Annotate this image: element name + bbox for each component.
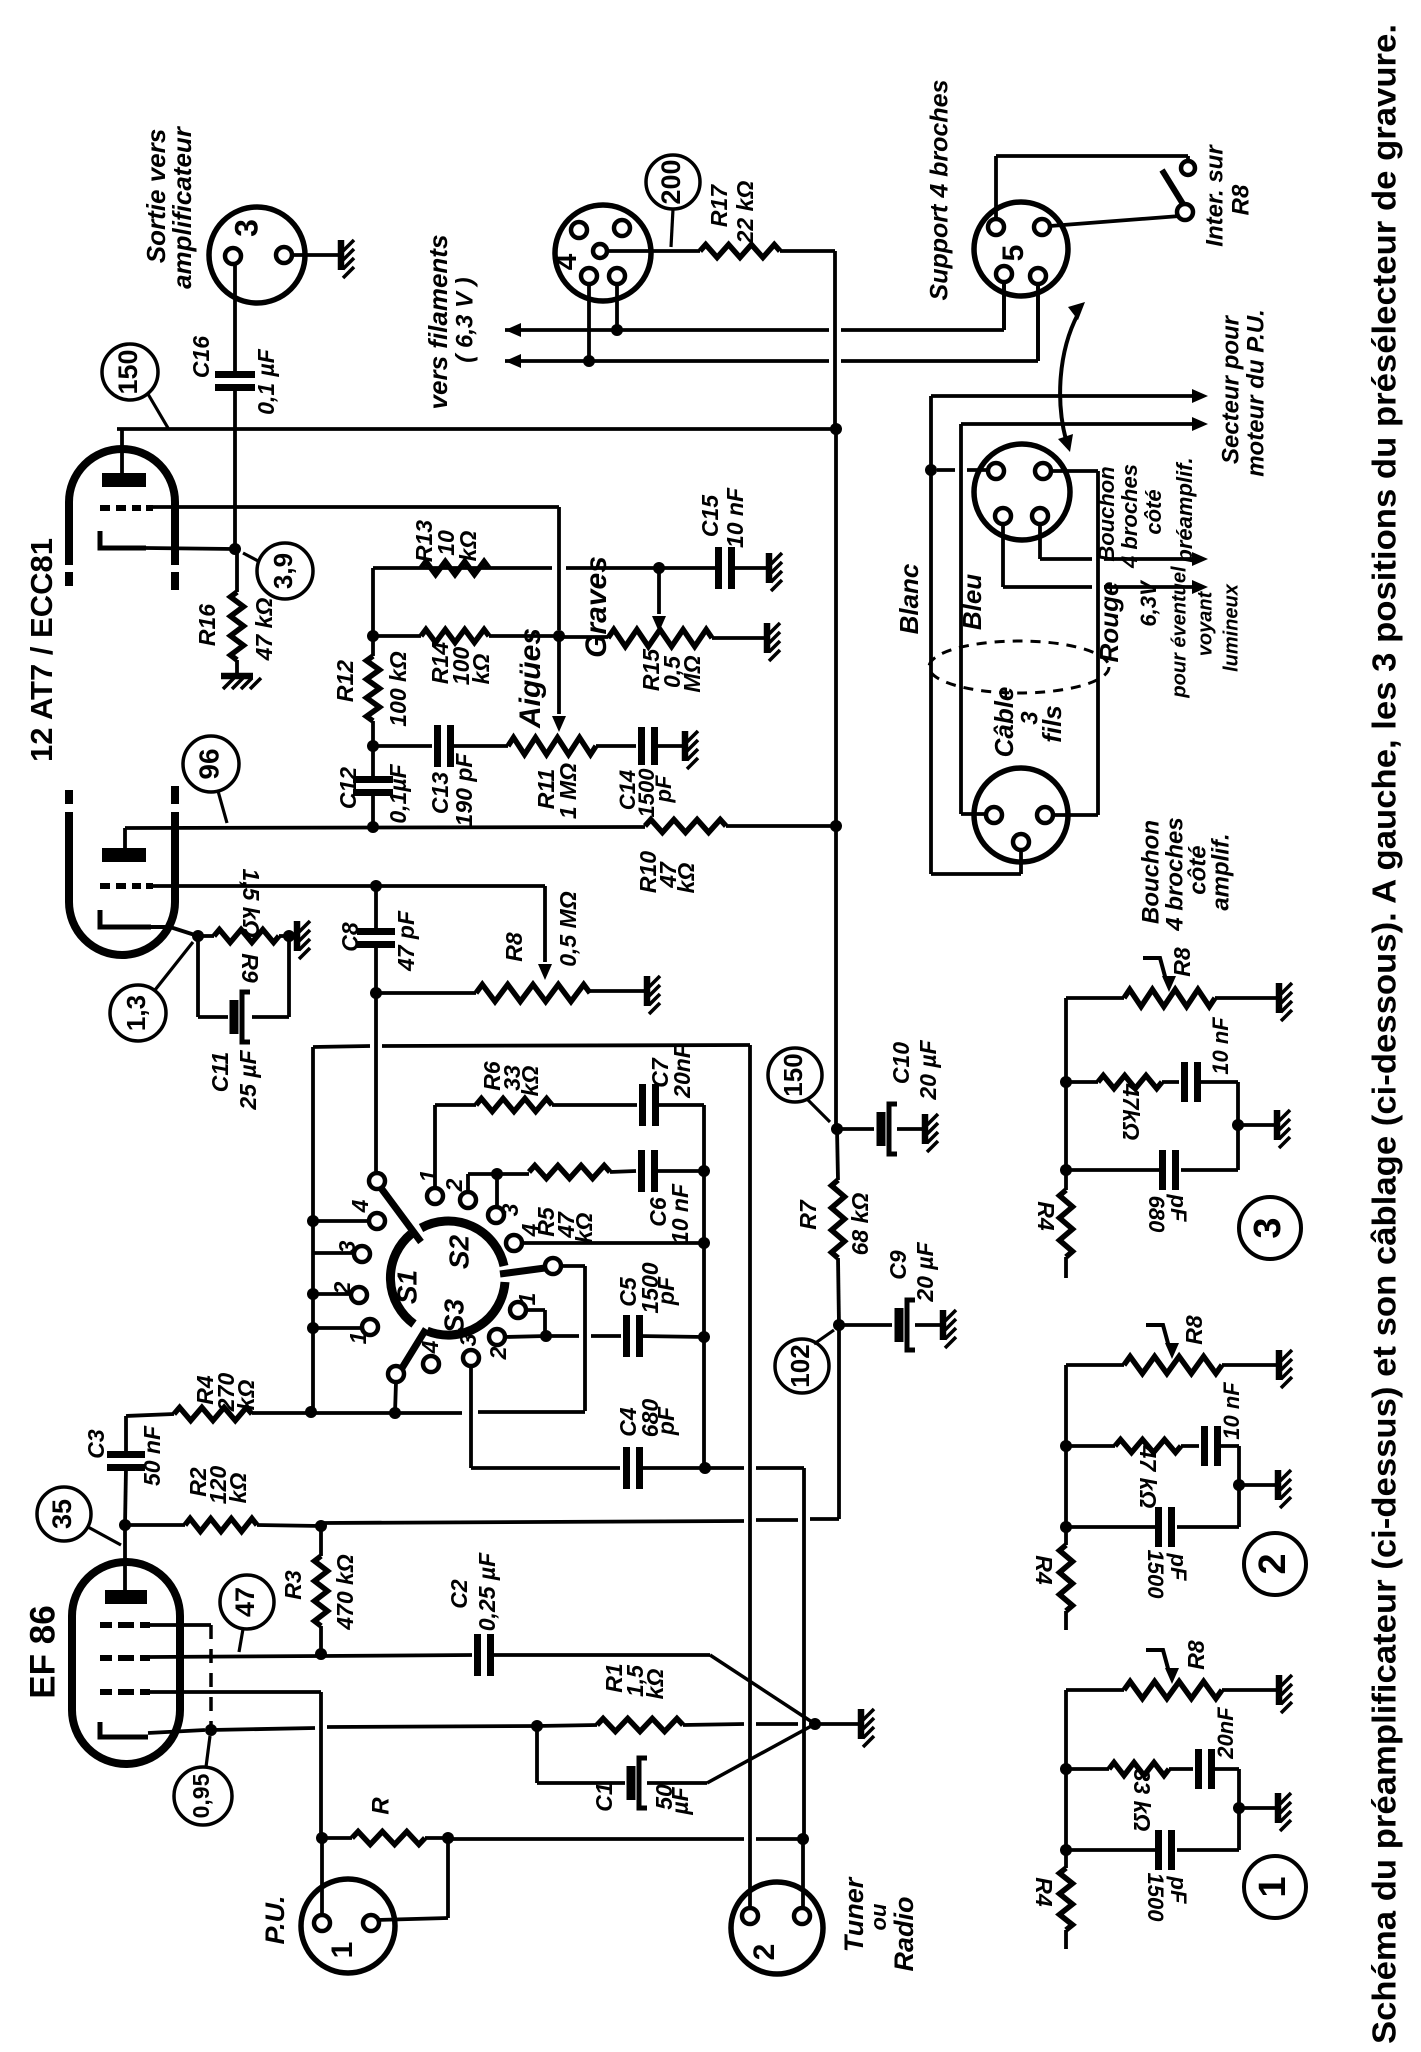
lever S1	[381, 1188, 421, 1242]
label preset3 47k (flipped)	[1118, 1083, 1144, 1140]
wire R17 to bus	[780, 251, 835, 429]
svg-text:Blanc: Blanc	[894, 563, 924, 634]
potentiometer R11 1M Aigues	[508, 738, 596, 755]
svg-text:Tuner: Tuner	[839, 1876, 869, 1952]
label 10nF C6	[667, 1183, 693, 1244]
svg-text:pF: pF	[651, 775, 676, 803]
junction R right	[442, 1832, 454, 1844]
number 2 (circled)	[1244, 1533, 1306, 1595]
junction R10 B+ rail	[830, 820, 842, 832]
svg-text:R3: R3	[280, 1570, 306, 1600]
wire tuner drop 1	[748, 1045, 752, 1912]
label 50nF	[139, 1425, 165, 1486]
resistor R16 47k	[231, 549, 244, 673]
ground preset1 R8	[1279, 1675, 1292, 1713]
label preset2 47k (flipped)	[1135, 1445, 1161, 1509]
junction filament 1	[611, 324, 623, 336]
label 680pF C4	[637, 1399, 679, 1438]
wire anode V2a to 96 bus	[123, 828, 127, 848]
label 1500pF C5	[637, 1262, 679, 1313]
preset3 mid R 47k	[1066, 1076, 1179, 1089]
preset3 R8 wiper	[1143, 958, 1176, 992]
svg-text:0,95: 0,95	[188, 1773, 214, 1818]
capacitor C1 50uF	[631, 1758, 647, 1808]
ground below R16	[221, 676, 261, 689]
svg-text:0,1µF: 0,1µF	[385, 763, 411, 823]
svg-text:33 kΩ: 33 kΩ	[1129, 1769, 1155, 1832]
resistor R6 33k	[476, 1099, 552, 1112]
ground preset1 mid	[1278, 1793, 1291, 1831]
preset1 R8 wiper	[1146, 1650, 1179, 1684]
label s1-4	[347, 1199, 373, 1213]
wire to node 1,3	[155, 942, 193, 990]
svg-text:R4: R4	[1033, 1201, 1059, 1231]
svg-text:C12: C12	[335, 767, 361, 809]
svg-text:6,3V: 6,3V	[1136, 579, 1161, 627]
label 10 nF C15	[722, 487, 748, 548]
label 6,3V	[1136, 579, 1161, 627]
svg-text:0,25 µF: 0,25 µF	[474, 1552, 500, 1631]
wire S2-1 riser	[435, 1105, 476, 1188]
ground V1 cathode	[861, 1709, 874, 1747]
wire tuner drop 2	[801, 1839, 805, 1912]
wire C13 to R11	[451, 744, 508, 748]
ground at J3	[341, 240, 354, 278]
junction preset2 bot	[1060, 1521, 1072, 1533]
preset1 R4	[1060, 1868, 1073, 1949]
svg-text:R9: R9	[237, 953, 263, 983]
label Secteur pour	[1217, 314, 1244, 464]
svg-text:680: 680	[1144, 1196, 1169, 1233]
capacitor C12	[353, 746, 393, 828]
contact S1-1	[362, 1319, 378, 1335]
junction g3 cathode	[205, 1724, 217, 1736]
label 12 AT7 / ECC81	[24, 538, 59, 762]
svg-text:20 µF: 20 µF	[915, 1039, 941, 1100]
svg-text:4: 4	[347, 1199, 373, 1213]
wire preset1 gnd link	[1239, 1806, 1275, 1810]
label S2	[443, 1234, 474, 1269]
label s1-1	[345, 1332, 371, 1345]
svg-text:3,9: 3,9	[268, 553, 298, 589]
wire g3 dashed drop	[209, 1625, 213, 1729]
svg-text:fils: fils	[1037, 705, 1067, 743]
label s1-3	[334, 1240, 360, 1253]
label 0,25uF	[474, 1552, 500, 1631]
svg-text:10 nF: 10 nF	[1208, 1017, 1233, 1075]
wire R to tuner line	[448, 1837, 803, 1841]
svg-text:2: 2	[748, 1944, 781, 1961]
label preset2 R4 (flipped)	[1031, 1555, 1057, 1585]
number 1 (circled)	[1244, 1856, 1306, 1918]
junction R5 left	[491, 1168, 503, 1180]
junction preset1 mid	[1060, 1763, 1072, 1775]
svg-text:Câble: Câble	[989, 687, 1019, 758]
svg-text:1500: 1500	[1143, 1873, 1168, 1923]
label C11	[207, 1052, 233, 1093]
svg-text:lumineux: lumineux	[1220, 583, 1242, 672]
svg-text:20 µF: 20 µF	[912, 1241, 938, 1302]
junction C4 rail	[699, 1462, 711, 1474]
label 47 kOhm	[251, 598, 277, 662]
svg-text:kΩ: kΩ	[233, 1380, 259, 1411]
label Graves	[580, 556, 613, 658]
capacitor C3 50nF	[107, 1416, 145, 1525]
svg-text:kΩ: kΩ	[455, 531, 481, 562]
svg-text:EF 86: EF 86	[23, 1605, 62, 1698]
svg-text:3: 3	[497, 1203, 523, 1216]
label pour eventuel	[1168, 566, 1190, 699]
svg-text:C9: C9	[885, 1250, 911, 1280]
cathode V1	[100, 1722, 148, 1737]
ground R8	[647, 976, 660, 1014]
contact S1-4	[369, 1213, 385, 1229]
wire secteur line 1	[931, 396, 1198, 470]
label moteur du PU	[1242, 309, 1269, 477]
svg-text:4: 4	[417, 1340, 443, 1354]
anode V2b	[102, 473, 146, 487]
wire cathode line	[148, 1726, 537, 1733]
junction R9 left	[192, 930, 204, 942]
wire C3 to R4	[126, 1414, 174, 1416]
resistor R4 270k	[174, 1408, 311, 1421]
connector P1 bouchon preamp	[974, 444, 1070, 540]
connector J4 filament	[550, 205, 651, 301]
svg-text:µF: µF	[667, 1786, 693, 1815]
svg-text:pF: pF	[1166, 1876, 1191, 1904]
wire grid V2a line	[150, 884, 545, 888]
wire C8 to R8	[376, 991, 476, 995]
svg-text:kΩ: kΩ	[642, 1669, 668, 1700]
svg-text:Bouchon: Bouchon	[1137, 820, 1164, 924]
label preset1 R8	[1183, 1640, 1209, 1670]
label C6	[645, 1197, 671, 1227]
svg-text:190 pF: 190 pF	[451, 753, 477, 827]
wire C10 link	[837, 1127, 874, 1131]
wire anode V1 up	[123, 1525, 127, 1590]
capacitor C14 1500pF	[642, 727, 683, 765]
wire g3 lead	[150, 1623, 211, 1627]
svg-text:P.U.: P.U.	[260, 1895, 290, 1944]
wire S2-23 node	[468, 1174, 497, 1207]
svg-text:20nF: 20nF	[1213, 1707, 1238, 1760]
wire 63v line 1	[1040, 524, 1198, 559]
svg-text:vers filaments: vers filaments	[423, 235, 453, 410]
resistor R13 10k	[421, 562, 489, 575]
curved arrow plug	[1058, 302, 1085, 452]
svg-text:côté: côté	[1141, 489, 1166, 534]
label P.U.	[260, 1895, 290, 1944]
svg-text:1,5 kΩ: 1,5 kΩ	[238, 868, 264, 937]
svg-text:5: 5	[997, 245, 1030, 262]
junction cathode V2b	[229, 543, 241, 555]
ground R9	[289, 921, 310, 959]
wire node200	[671, 209, 673, 247]
ground C14	[685, 731, 698, 769]
wire grid1 line	[150, 1692, 321, 1838]
resistor R12 100k	[367, 636, 380, 746]
capacitor C9 20uF	[899, 1300, 940, 1350]
ground R15	[767, 623, 780, 661]
wire C6 to rail	[654, 1169, 704, 1173]
potentiometer R8 0,5M	[476, 985, 644, 1002]
label 0,1 uF	[253, 348, 279, 415]
label C12	[335, 767, 361, 809]
resistor R2 120k	[125, 1519, 321, 1532]
label s2-4	[517, 1223, 543, 1237]
svg-text:R4: R4	[1031, 1877, 1057, 1907]
svg-text:C2: C2	[446, 1579, 472, 1609]
label R10	[635, 851, 699, 894]
preset2 bottom cap 1500pF	[1066, 1507, 1239, 1547]
wire R5 to C6	[610, 1171, 636, 1172]
preset1 R8 pot	[1066, 1682, 1276, 1699]
label R12	[332, 660, 358, 702]
label 20nF C7	[669, 1043, 695, 1099]
lever S2	[500, 1268, 545, 1274]
connector J2 Tuner	[731, 1882, 823, 1974]
wire J5 pin3 to filament1	[1002, 282, 1006, 330]
preset1 right rail	[1237, 1769, 1241, 1850]
junction preset2 gnd	[1233, 1479, 1245, 1491]
svg-text:Schéma du préamplificateur (ci: Schéma du préamplificateur (ci-dessus) e…	[1366, 24, 1403, 2044]
label preset2 1500pF (flipped)	[1143, 1550, 1191, 1600]
svg-text:150: 150	[113, 349, 143, 394]
label C5	[615, 1276, 641, 1307]
label lumineux	[1220, 583, 1242, 672]
junction C1 left	[531, 1720, 543, 1732]
wire R14 rail	[373, 634, 559, 638]
svg-text:( 6,3 V ): ( 6,3 V )	[451, 277, 478, 362]
preset2 left rail	[1064, 1365, 1068, 1545]
label C4	[615, 1407, 641, 1437]
svg-text:100 kΩ: 100 kΩ	[385, 651, 411, 727]
wire 96 bus	[125, 826, 836, 828]
label Support 4 broches	[926, 79, 954, 300]
node 150b (circled)	[768, 1048, 822, 1102]
svg-text:S3: S3	[438, 1298, 469, 1333]
label Bouchon preamp	[1094, 457, 1197, 569]
junction 96 bus C12	[367, 821, 379, 833]
capacitor C5 1500pF	[627, 1315, 640, 1357]
svg-text:MΩ: MΩ	[679, 655, 705, 692]
junction R17 drop	[830, 423, 842, 435]
svg-text:4 broches: 4 broches	[1117, 464, 1142, 569]
preset2 R4	[1060, 1545, 1073, 1630]
label 0,1uF C12	[385, 763, 411, 823]
label R	[367, 1797, 394, 1815]
contact S1-3	[354, 1246, 370, 1262]
wire R11 to C14	[596, 744, 636, 748]
label 1,5k R9 (flipped)	[238, 868, 264, 937]
label preset2 10nF	[1219, 1382, 1244, 1440]
label preset3 R8	[1169, 947, 1195, 977]
wire PU left pin	[320, 1838, 324, 1916]
wire C1 right diagonal	[647, 1724, 815, 1783]
contact S2-2	[460, 1192, 476, 1208]
svg-text:Rouge: Rouge	[1094, 582, 1124, 663]
connector J5 support 4 broches	[974, 202, 1068, 296]
wire filament line 1	[505, 283, 1004, 330]
junction C5 rail	[698, 1331, 710, 1343]
label Sortie vers amplificateur	[141, 125, 197, 289]
switch rotor circle	[390, 1221, 505, 1335]
junction S2-4 rail	[698, 1237, 710, 1249]
svg-text:47kΩ: 47kΩ	[1118, 1083, 1144, 1140]
contact S3 rotor	[388, 1366, 404, 1382]
svg-text:Aigües: Aigües	[514, 628, 547, 729]
svg-text:3: 3	[1247, 1217, 1289, 1238]
wiper R11	[552, 636, 566, 732]
label preset1 1500pF (flipped)	[1143, 1873, 1191, 1923]
svg-text:4: 4	[550, 253, 583, 270]
svg-text:R8: R8	[501, 932, 527, 962]
svg-text:10 nF: 10 nF	[722, 487, 748, 548]
preset3 R8 pot	[1066, 990, 1276, 1007]
svg-text:1,3: 1,3	[121, 995, 151, 1031]
wiper arrow R8	[538, 964, 552, 980]
label R15	[638, 648, 705, 693]
arrow 63v 2	[1192, 580, 1208, 594]
grid2 V1 dashes	[100, 1655, 150, 1661]
wire to node35	[88, 1527, 121, 1545]
junction R2 right	[315, 1520, 327, 1532]
wire J5 pin4 to filament2	[1036, 284, 1040, 361]
capacitor C6 10nF	[642, 1150, 655, 1192]
node 3,9 (circled)	[257, 543, 313, 599]
node 35 (circled)	[37, 1487, 91, 1541]
contact S3-3	[463, 1350, 479, 1366]
label s3-4	[417, 1340, 443, 1354]
label R13	[411, 520, 481, 562]
junction S1-2	[307, 1288, 319, 1300]
grid1 V1 dashes	[100, 1689, 150, 1695]
svg-text:R8: R8	[1181, 1315, 1207, 1345]
label s3-1	[514, 1293, 540, 1306]
potentiometer R15 0,5M Graves	[608, 630, 764, 647]
label R14	[427, 642, 494, 685]
label R6	[479, 1061, 543, 1096]
resistor R7 68k	[832, 1129, 845, 1325]
contact S1-2	[351, 1287, 367, 1303]
label s2-2	[441, 1178, 467, 1192]
connector P2 bouchon amplif	[974, 768, 1068, 862]
label R17	[706, 184, 732, 227]
svg-text:22 kΩ: 22 kΩ	[732, 181, 758, 245]
contact S2-1	[427, 1188, 443, 1204]
svg-text:10 nF: 10 nF	[1219, 1382, 1244, 1440]
wire S3 rotor drop	[395, 1382, 396, 1413]
wire cathode V2b to node	[146, 548, 235, 549]
label 190 pF	[451, 753, 477, 827]
label C14	[615, 768, 676, 818]
svg-text:1500: 1500	[1143, 1550, 1168, 1600]
junction preset3 bot	[1060, 1164, 1072, 1176]
label R8 main	[501, 932, 527, 962]
node 150 (circled)	[102, 344, 158, 400]
wire C1 loop	[537, 1726, 625, 1783]
svg-text:96: 96	[193, 748, 224, 779]
label R9 (flipped)	[237, 953, 263, 983]
label R3	[280, 1570, 306, 1600]
preset2 right rail	[1237, 1446, 1241, 1527]
svg-text:Radio: Radio	[889, 1896, 919, 1971]
label Aigues	[514, 628, 547, 729]
preset2 R8 pot	[1066, 1357, 1276, 1374]
preset3 bottom cap 680pF	[1066, 1150, 1238, 1190]
tube V2b envelope (12AT7 upper)	[69, 449, 175, 590]
svg-text:pF: pF	[653, 1276, 679, 1306]
svg-text:R: R	[367, 1797, 394, 1815]
node 102 (circled)	[775, 1339, 829, 1393]
svg-text:C15: C15	[697, 494, 723, 537]
svg-text:12 AT7 / ECC81: 12 AT7 / ECC81	[24, 538, 59, 762]
contact S1 rotor	[369, 1173, 385, 1189]
junction aigues tap	[553, 630, 565, 642]
svg-text:20nF: 20nF	[669, 1043, 695, 1099]
junction R14 left	[367, 630, 379, 642]
arrow secteur 2	[1192, 417, 1208, 431]
wire B+ 150V bus	[117, 429, 836, 1129]
wire C9 link	[839, 1323, 892, 1327]
wire to R5	[497, 1172, 529, 1176]
arrow 63v 1	[1192, 552, 1208, 566]
junction S3 rotor node	[389, 1407, 401, 1419]
ground C9	[943, 1310, 956, 1348]
junction blanc	[925, 464, 937, 476]
label 100k R12	[385, 651, 411, 727]
label (6,3 V)	[451, 277, 478, 362]
svg-text:moteur du P.U.: moteur du P.U.	[1242, 309, 1269, 477]
label 0,5 MOhm	[555, 891, 581, 967]
svg-text:R8: R8	[1169, 947, 1195, 977]
label preset1 20nF	[1213, 1707, 1238, 1760]
wire ground link	[815, 1722, 858, 1726]
wire S1 riser	[374, 993, 378, 1173]
resistor R3 470k	[315, 1526, 328, 1654]
resistor R10 47k	[645, 820, 726, 833]
svg-text:R17: R17	[706, 184, 732, 227]
wire S2-4 link	[522, 1241, 704, 1245]
ground preset3 R8	[1279, 983, 1292, 1021]
svg-text:R8: R8	[1183, 1640, 1209, 1670]
label R1	[601, 1663, 668, 1699]
wire to node095	[206, 1736, 210, 1767]
junction C5 node	[540, 1330, 552, 1342]
wire J5 to switch top	[996, 156, 1188, 219]
label R5	[533, 1206, 597, 1243]
label C16	[188, 336, 214, 378]
grid3 V1 dashes	[100, 1622, 150, 1628]
wire C11 loop	[198, 936, 289, 1017]
label Cable 3 fils	[989, 687, 1067, 758]
label s3-3	[455, 1333, 481, 1346]
wire S1-1 link	[313, 1326, 362, 1330]
label EF 86	[23, 1605, 62, 1698]
grid V2a dashes	[100, 883, 153, 889]
label C9	[885, 1250, 911, 1280]
label C8	[337, 922, 363, 952]
lever S3	[402, 1329, 426, 1368]
wire J5 to switch bottom	[1050, 216, 1180, 226]
svg-text:C13: C13	[427, 772, 453, 814]
wire J4 pin drop 1	[615, 284, 619, 330]
label C2	[446, 1579, 472, 1609]
wire R15 link	[559, 635, 608, 639]
label R4 270k	[192, 1373, 259, 1413]
wire C5 line	[546, 1334, 621, 1338]
label Bleu	[957, 574, 987, 630]
